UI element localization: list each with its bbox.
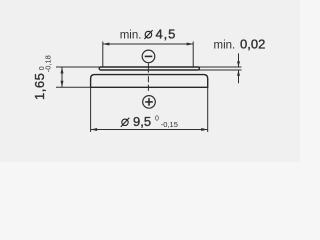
svg-text:0,02: 0,02: [240, 37, 265, 52]
extension line: cap bottom to right (min 0,02 lower): [198, 69, 242, 71]
extension line: can bottom to left (1,65 bottom): [56, 86, 91, 88]
extension line: dia 9,5 right: [207, 87, 209, 132]
arrowhead 1,65 bottom: [61, 81, 64, 88]
label: min. dia 4,5: [120, 27, 177, 42]
label: 1,65 with tolerance 0/-0,18 (rotated): [32, 55, 52, 100]
dimension line 1,65 vertical: [61, 67, 63, 87]
arrowhead dia 4,5 left: [103, 43, 110, 46]
svg-text:0: 0: [155, 115, 159, 122]
extension line: dia 4,5 right: [192, 42, 194, 68]
arrowhead dia 4,5 right: [187, 43, 194, 46]
arrowhead min 0,02 down: [237, 61, 240, 67]
extension line: cap top to right (min 0,02 upper): [194, 66, 242, 68]
label: dia 9,5 with tolerance 0/-0,15: [121, 114, 178, 129]
circled plus (positive terminal symbol): [143, 96, 156, 109]
svg-text:-0,18: -0,18: [44, 55, 53, 72]
dimension line dia 9,5: [91, 129, 208, 131]
svg-text:9,5: 9,5: [133, 114, 151, 129]
svg-text:1,65: 1,65: [32, 73, 47, 100]
arrowhead dia 9,5 left: [91, 128, 98, 131]
svg-text:min.: min.: [120, 30, 142, 42]
arrowhead 1,65 top: [61, 67, 64, 74]
extension line: cap top to left (1,65 top): [56, 66, 105, 68]
dimension line min 0,02 lower segment: [238, 70, 240, 83]
negative cap (top stadium outline): [99, 67, 199, 70]
extension line: dia 9,5 left: [90, 87, 92, 132]
centerline: [147, 63, 149, 91]
dimension line dia 4,5: [103, 43, 193, 45]
svg-text:-0,15: -0,15: [161, 120, 178, 129]
arrowhead dia 9,5 right: [201, 128, 208, 131]
circled minus (negative terminal symbol): [142, 50, 155, 63]
dimension line min 0,02 upper segment: [238, 53, 240, 67]
can (positive case outline): [91, 75, 208, 88]
arrowhead min 0,02 up: [237, 70, 240, 76]
svg-text:4,5: 4,5: [156, 27, 177, 42]
svg-text:min.: min.: [214, 40, 236, 52]
extension line: dia 4,5 left: [102, 42, 104, 68]
